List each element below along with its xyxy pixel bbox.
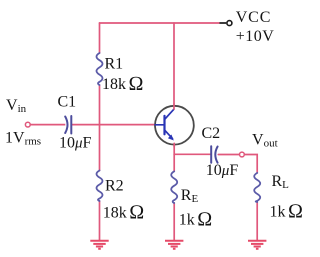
svg-text:10μF: 10μF [59, 135, 92, 152]
svg-text:10μF: 10μF [206, 162, 239, 179]
svg-text:+10V: +10V [236, 28, 275, 45]
svg-text:C2: C2 [202, 125, 221, 142]
svg-text:VCC: VCC [236, 9, 272, 26]
svg-text:R1: R1 [105, 56, 124, 73]
svg-text:18kΩ: 18kΩ [102, 73, 144, 95]
svg-text:18kΩ: 18kΩ [103, 201, 145, 223]
svg-text:C1: C1 [58, 94, 77, 111]
svg-text:R2: R2 [105, 178, 124, 195]
